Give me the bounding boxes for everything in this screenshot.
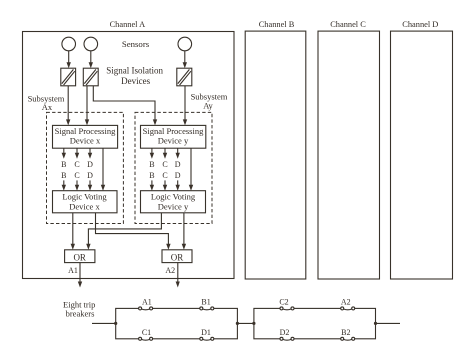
- enclosure Channel B: [245, 31, 306, 279]
- label Channel B: [259, 20, 295, 29]
- svg-text:Ay: Ay: [203, 100, 213, 110]
- signal processing device y: [141, 125, 206, 148]
- svg-text:Device y: Device y: [158, 201, 189, 211]
- breaker D1: [200, 328, 214, 341]
- svg-text:D: D: [87, 160, 93, 169]
- svg-text:D: D: [175, 171, 181, 180]
- OR gate 2: [162, 250, 192, 263]
- node labels B C D outputs subsystem x: [61, 160, 93, 169]
- svg-text:B: B: [61, 160, 66, 169]
- wire left lead: [92, 322, 116, 324]
- svg-text:D: D: [87, 171, 93, 180]
- svg-text:C: C: [162, 171, 167, 180]
- node labels B C D inputs subsystem y: [149, 171, 181, 180]
- svg-text:breakers: breakers: [66, 309, 95, 319]
- subsystem Ay dashed enclosure: [135, 112, 212, 223]
- wire isolator3 to SPy: [183, 86, 187, 126]
- svg-text:A2: A2: [341, 297, 351, 306]
- junction left of group 2: [252, 322, 255, 325]
- label Subsystem Ax: [28, 93, 65, 112]
- svg-text:D1: D1: [201, 328, 211, 337]
- svg-text:Signal Processing: Signal Processing: [143, 126, 204, 136]
- label Eight trip breakers: [63, 299, 95, 318]
- label Channel A: [110, 20, 146, 29]
- svg-text:Device y: Device y: [158, 136, 189, 146]
- junction right of group 1: [236, 322, 239, 325]
- breaker C2: [279, 297, 294, 310]
- wire isolator1 to SPx: [66, 86, 70, 126]
- svg-text:Channel C: Channel C: [330, 20, 366, 29]
- wire isolator2 to SPx: [85, 86, 89, 126]
- wire sensor2 to isolator2: [89, 51, 93, 68]
- sensor 2: [84, 37, 98, 51]
- wire between breaker groups: [237, 322, 254, 324]
- node label A1: [68, 266, 78, 275]
- svg-text:C: C: [162, 160, 167, 169]
- enclosure Channel D: [391, 31, 453, 279]
- label Channel D: [402, 20, 438, 29]
- svg-text:C2: C2: [279, 297, 288, 306]
- wire isolator2 branch to SPy: [93, 86, 157, 126]
- sensor 1: [62, 37, 76, 51]
- svg-text:B: B: [61, 171, 66, 180]
- signal isolation device 2: [83, 68, 98, 86]
- signal isolation device 3: [177, 68, 192, 86]
- wire SPx direct to LVx: [101, 148, 105, 191]
- breaker group 1 enclosure: [116, 308, 238, 338]
- svg-text:D: D: [175, 160, 181, 169]
- wire LVy to OR2: [182, 213, 186, 250]
- svg-text:OR: OR: [73, 252, 86, 262]
- B C D input arrows to LVx: [62, 180, 93, 190]
- svg-text:A2: A2: [165, 266, 175, 275]
- SPy output arrows to B C D: [150, 148, 180, 159]
- SPx output arrows to B C D: [62, 148, 93, 159]
- breaker B2: [341, 328, 355, 341]
- svg-text:B2: B2: [341, 328, 350, 337]
- signal processing device x: [53, 125, 118, 148]
- breaker B1: [200, 297, 214, 310]
- breaker D2: [280, 328, 294, 341]
- wire right lead: [376, 322, 401, 324]
- wire SPy direct to LVy: [189, 148, 193, 191]
- svg-text:Logic Voting: Logic Voting: [151, 191, 196, 201]
- logic voting device y: [141, 191, 206, 213]
- svg-text:Logic Voting: Logic Voting: [62, 191, 107, 201]
- enclosure Channel C: [318, 31, 380, 279]
- wire OR1 output A1: [78, 263, 82, 288]
- svg-text:Signal Isolation: Signal Isolation: [106, 66, 163, 76]
- breaker A2: [341, 297, 355, 310]
- wire sensor3 to isolator3: [183, 51, 187, 68]
- svg-text:A1: A1: [142, 297, 152, 306]
- svg-text:Device x: Device x: [69, 201, 100, 211]
- svg-text:B: B: [149, 171, 154, 180]
- label Subsystem Ay: [191, 91, 228, 110]
- svg-text:Ax: Ax: [42, 102, 53, 112]
- enclosure Channel A: [23, 32, 235, 279]
- svg-text:C: C: [74, 160, 79, 169]
- svg-text:Sensors: Sensors: [122, 39, 150, 49]
- wire LVy to OR1 crossover: [86, 213, 161, 250]
- sensor 3: [178, 37, 192, 51]
- breaker A1: [139, 297, 153, 310]
- node labels B C D inputs subsystem x: [61, 171, 93, 180]
- wire OR2 output A2: [176, 263, 180, 288]
- B C D input arrows to LVy: [150, 180, 180, 190]
- svg-text:Device x: Device x: [70, 136, 101, 146]
- logic voting device x: [53, 191, 118, 213]
- wire LVx to OR2 crossover: [96, 213, 171, 250]
- subsystem Ax dashed enclosure: [47, 112, 124, 223]
- svg-text:A1: A1: [68, 266, 78, 275]
- label Channel C: [330, 20, 366, 29]
- svg-text:C1: C1: [142, 328, 151, 337]
- svg-text:Channel B: Channel B: [259, 20, 295, 29]
- wire sensor1 to isolator1: [67, 51, 71, 68]
- OR gate 1: [65, 250, 95, 263]
- label Sensors: [122, 39, 150, 49]
- svg-text:D2: D2: [280, 328, 290, 337]
- svg-text:Channel D: Channel D: [402, 20, 438, 29]
- svg-text:C: C: [74, 171, 79, 180]
- svg-text:Signal Processing: Signal Processing: [55, 126, 116, 136]
- breaker group 2 enclosure: [254, 308, 376, 338]
- svg-text:Devices: Devices: [121, 76, 150, 86]
- junction left of group 1: [114, 322, 117, 325]
- node labels B C D outputs subsystem y: [149, 160, 181, 169]
- junction right of group 2: [374, 322, 377, 325]
- wire LVx to OR1: [71, 213, 75, 250]
- node label A2: [165, 266, 175, 275]
- svg-text:OR: OR: [171, 252, 184, 262]
- svg-text:B: B: [149, 160, 154, 169]
- signal isolation device 1: [61, 68, 76, 86]
- label Signal Isolation Devices: [106, 66, 163, 87]
- svg-text:Channel A: Channel A: [110, 20, 146, 29]
- breaker C1: [139, 328, 153, 341]
- svg-text:B1: B1: [201, 297, 210, 306]
